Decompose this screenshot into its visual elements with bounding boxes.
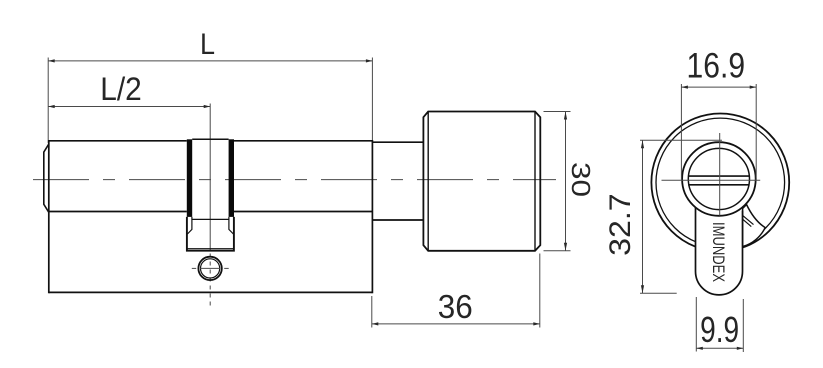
dimension L line bbox=[48, 60, 372, 62]
knob chamfer line left bbox=[427, 112, 429, 251]
cam nose (end view) bbox=[743, 205, 766, 247]
knob face outer circle bbox=[651, 113, 789, 251]
fixing screw hole outer circle bbox=[198, 257, 221, 280]
cam inner wall left bbox=[187, 217, 192, 234]
dimension L arrow left bbox=[48, 59, 55, 62]
dimension L/2 arrow left bbox=[48, 105, 55, 108]
svg-text:30: 30 bbox=[566, 162, 596, 197]
screw hole horizontal centerline bbox=[192, 267, 196, 269]
turn slot top edge bbox=[688, 175, 749, 177]
thumbturn neck top edge bbox=[372, 141, 423, 143]
end view vertical centerline bbox=[719, 133, 721, 216]
turn slot bottom edge bbox=[688, 184, 749, 186]
cylinder barrel top edge bbox=[49, 140, 187, 142]
dimension 9.9 arrow right bbox=[737, 347, 744, 350]
cylinder body bottom edge bbox=[49, 291, 373, 293]
cylinder left face bbox=[48, 140, 50, 293]
svg-text:L: L bbox=[200, 28, 215, 61]
boss outer circle bbox=[682, 142, 756, 216]
cam nose chamfer lines bbox=[743, 215, 754, 224]
cam centerline (L/2 extension, vertical thin) bbox=[209, 104, 211, 251]
dimension 32.7 extension line bottom bbox=[640, 292, 677, 294]
dimension L/2 line bbox=[48, 106, 210, 108]
dimension L/2 arrow right bbox=[204, 105, 211, 108]
cam inner top line bbox=[192, 218, 229, 220]
dimension 36 line bbox=[372, 323, 540, 325]
dimension 9.9 line bbox=[696, 347, 743, 349]
dimension L extension line left bbox=[47, 58, 49, 144]
dimension 16.9 arrow left bbox=[681, 86, 688, 89]
clutch washer left (black bar) bbox=[187, 139, 192, 217]
dimension 36 arrow left bbox=[372, 322, 379, 325]
dimension L arrow right bbox=[366, 59, 373, 62]
svg-text:36: 36 bbox=[438, 289, 473, 326]
dimension 16.9 extension line right bbox=[755, 84, 757, 180]
profile body (end view) bbox=[696, 205, 743, 295]
dimension 36 extension line right bbox=[539, 254, 541, 328]
dimension 36 extension line left bbox=[371, 296, 373, 328]
svg-text:9.9: 9.9 bbox=[700, 309, 739, 350]
dimension 30 extension line bottom bbox=[544, 250, 571, 252]
svg-text:32.7: 32.7 bbox=[604, 193, 637, 256]
dimension 30 arrow top bbox=[564, 112, 567, 120]
dimension 9.9 arrow left bbox=[696, 347, 703, 350]
knob face chamfer circle bbox=[656, 118, 785, 247]
cam cup outline bbox=[187, 217, 234, 251]
svg-text:L/2: L/2 bbox=[100, 71, 142, 107]
fixing screw hole inner circle bbox=[201, 259, 220, 278]
knob chamfer line right bbox=[534, 112, 536, 251]
clutch washer right (black bar) bbox=[229, 139, 234, 217]
svg-text:16.9: 16.9 bbox=[687, 45, 746, 85]
cylinder right face bbox=[371, 140, 373, 293]
boss inner circle bbox=[688, 148, 749, 209]
dimension 16.9 extension line left bbox=[680, 84, 682, 180]
cylinder barrel bottom tangent edge bbox=[49, 211, 187, 213]
centerline (side view cylinder axis) bbox=[33, 179, 556, 181]
plug end cap (left, chamfered) bbox=[44, 144, 49, 212]
dimension 9.9 extension line right bbox=[742, 299, 744, 352]
svg-text:IMUNDEX: IMUNDEX bbox=[709, 222, 727, 282]
dimension 16.9 arrow right bbox=[750, 86, 757, 89]
dimension 16.9 line bbox=[681, 86, 756, 88]
dimension 9.9 extension line left bbox=[695, 297, 697, 352]
dimension 32.7 arrow bottom bbox=[641, 285, 644, 293]
dimension 30 line bbox=[565, 112, 567, 251]
dimension 30 extension line top bbox=[544, 111, 571, 113]
dimension 32.7 arrow top bbox=[641, 140, 644, 148]
cam inner wall right bbox=[229, 217, 234, 234]
dimension 32.7 line bbox=[642, 140, 644, 293]
thumbturn knob outline bbox=[423, 112, 540, 251]
dimension 32.7 extension line top bbox=[640, 139, 722, 141]
cam cup inner bottom bbox=[188, 248, 234, 250]
end view horizontal centerline bbox=[662, 179, 761, 181]
dimension L extension line right bbox=[371, 58, 373, 142]
dimension 36 arrow right bbox=[533, 322, 540, 325]
dimension 30 arrow bottom bbox=[564, 243, 567, 251]
thumbturn neck bottom edge bbox=[372, 219, 423, 221]
